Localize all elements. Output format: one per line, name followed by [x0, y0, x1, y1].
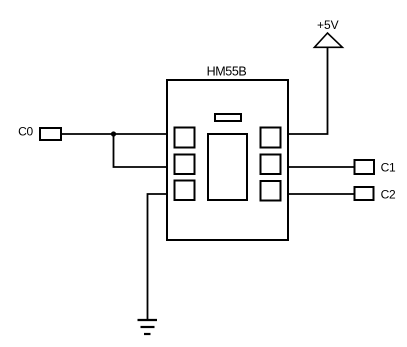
- svg-text:+5V: +5V: [317, 18, 339, 32]
- IC U1 HM55B body: [167, 80, 288, 240]
- power +5V symbol: [314, 18, 342, 47]
- pin box left 1: [175, 128, 195, 148]
- pin box left 2: [175, 155, 195, 175]
- wire pin to C1: [288, 166, 355, 168]
- pin box right 1: [261, 128, 281, 148]
- svg-text:C0: C0: [18, 125, 33, 139]
- svg-text:HM55B: HM55B: [207, 65, 247, 79]
- pin box right 3: [261, 181, 281, 201]
- connector C2: [355, 187, 396, 202]
- pin box left 3: [175, 181, 195, 201]
- wire +5V to pin top-right: [288, 47, 328, 134]
- svg-text:C1: C1: [381, 161, 396, 175]
- svg-text:C2: C2: [381, 188, 396, 202]
- connector C1: [355, 160, 396, 175]
- wire C0 to node A: [61, 133, 167, 135]
- node A junction dot: [111, 131, 116, 136]
- IC inner top bar: [215, 114, 241, 121]
- connector C0: [18, 125, 61, 141]
- wire pin to C2: [288, 193, 355, 195]
- wire node A down to pin 2: [114, 134, 168, 167]
- IC inner sensor block: [208, 134, 247, 200]
- wire pin 3 to ground: [148, 194, 168, 320]
- pin box right 2: [261, 155, 281, 175]
- ground: [138, 320, 158, 334]
